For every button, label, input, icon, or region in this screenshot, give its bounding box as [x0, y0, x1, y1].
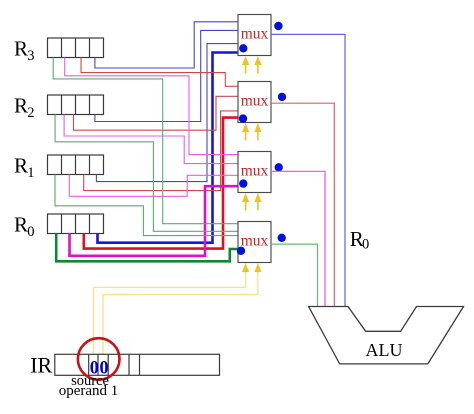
svg-text:R: R: [14, 36, 28, 60]
svg-text:operand 1: operand 1: [59, 383, 119, 399]
svg-text:2: 2: [27, 105, 34, 121]
svg-text:mux: mux: [241, 163, 269, 180]
svg-text:mux: mux: [241, 26, 269, 43]
svg-text:R: R: [14, 93, 28, 117]
svg-text:mux: mux: [241, 93, 269, 110]
svg-text:IR: IR: [30, 353, 52, 378]
svg-text:0: 0: [362, 237, 369, 253]
svg-text:R: R: [14, 212, 28, 236]
svg-text:0: 0: [27, 224, 34, 240]
svg-text:mux: mux: [241, 233, 269, 250]
svg-text:1: 1: [27, 165, 34, 181]
svg-text:3: 3: [27, 48, 34, 64]
svg-text:ALU: ALU: [366, 340, 403, 360]
svg-text:R: R: [14, 153, 28, 177]
